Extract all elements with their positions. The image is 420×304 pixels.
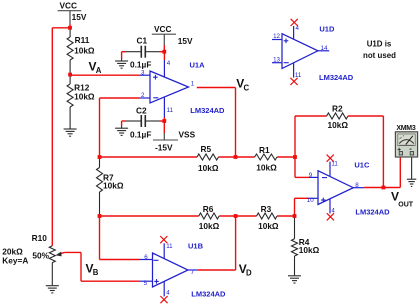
svg-text:9: 9 <box>309 172 313 179</box>
svg-text:OUT: OUT <box>398 201 414 208</box>
svg-text:R2: R2 <box>332 104 343 114</box>
svg-text:LM324AD: LM324AD <box>319 73 354 82</box>
svg-text:4: 4 <box>331 208 335 215</box>
svg-text:13: 13 <box>273 57 280 64</box>
svg-text:12: 12 <box>273 33 280 40</box>
svg-text:10kΩ: 10kΩ <box>299 245 320 255</box>
svg-text:8: 8 <box>355 182 359 189</box>
svg-text:11: 11 <box>166 243 173 250</box>
svg-text:3: 3 <box>141 69 145 76</box>
svg-text:0.1µF: 0.1µF <box>130 59 151 69</box>
svg-text:A: A <box>96 66 102 75</box>
svg-text:U1C: U1C <box>354 161 370 170</box>
svg-text:5: 5 <box>144 280 148 287</box>
svg-text:15V: 15V <box>72 12 87 22</box>
svg-text:C2: C2 <box>136 106 147 116</box>
svg-text:11: 11 <box>295 72 302 79</box>
svg-text:LM324AD: LM324AD <box>190 106 225 115</box>
svg-text:VCC: VCC <box>154 24 172 34</box>
svg-text:not used: not used <box>363 51 396 60</box>
svg-text:R10: R10 <box>32 233 48 243</box>
svg-text:R11: R11 <box>75 35 90 45</box>
svg-text:4: 4 <box>167 60 171 67</box>
svg-text:Key=A: Key=A <box>2 255 28 265</box>
svg-text:B: B <box>93 268 99 277</box>
svg-text:0.1µF: 0.1µF <box>130 130 151 140</box>
svg-text:U1D: U1D <box>319 25 335 34</box>
svg-text:10kΩ: 10kΩ <box>74 46 95 56</box>
svg-text:XMM3: XMM3 <box>396 125 415 132</box>
svg-text:1: 1 <box>191 80 195 87</box>
svg-text:R1: R1 <box>259 145 270 155</box>
svg-text:VSS: VSS <box>179 130 196 140</box>
svg-text:10kΩ: 10kΩ <box>328 120 349 130</box>
svg-text:C1: C1 <box>137 36 148 46</box>
svg-text:2: 2 <box>141 92 145 99</box>
svg-text:U1D is: U1D is <box>367 40 392 49</box>
svg-text:10kΩ: 10kΩ <box>256 163 277 173</box>
svg-text:C: C <box>244 83 250 92</box>
svg-text:-15V: -15V <box>155 143 173 153</box>
svg-text:11: 11 <box>167 107 174 114</box>
svg-text:LM324AD: LM324AD <box>355 207 390 216</box>
svg-text:10kΩ: 10kΩ <box>258 221 279 231</box>
svg-text:U1B: U1B <box>188 241 204 250</box>
svg-text:U1A: U1A <box>190 60 206 69</box>
svg-text:50%: 50% <box>32 251 49 261</box>
svg-text:R6: R6 <box>203 204 214 214</box>
svg-text:10kΩ: 10kΩ <box>199 221 220 231</box>
svg-text:15V: 15V <box>178 36 193 46</box>
svg-text:10kΩ: 10kΩ <box>74 92 95 102</box>
svg-text:4: 4 <box>296 25 300 32</box>
svg-text:10kΩ: 10kΩ <box>103 181 124 191</box>
svg-text:14: 14 <box>321 45 328 52</box>
svg-text:10: 10 <box>307 197 314 204</box>
svg-text:VCC: VCC <box>60 1 78 11</box>
svg-text:LM324AD: LM324AD <box>191 289 226 298</box>
svg-text:6: 6 <box>144 254 148 261</box>
svg-text:R3: R3 <box>261 204 272 214</box>
svg-text:7: 7 <box>191 269 195 276</box>
svg-text:11: 11 <box>331 160 338 167</box>
svg-text:10kΩ: 10kΩ <box>198 163 219 173</box>
svg-text:D: D <box>246 269 252 278</box>
svg-text:4: 4 <box>166 289 170 296</box>
svg-text:R5: R5 <box>201 144 212 154</box>
